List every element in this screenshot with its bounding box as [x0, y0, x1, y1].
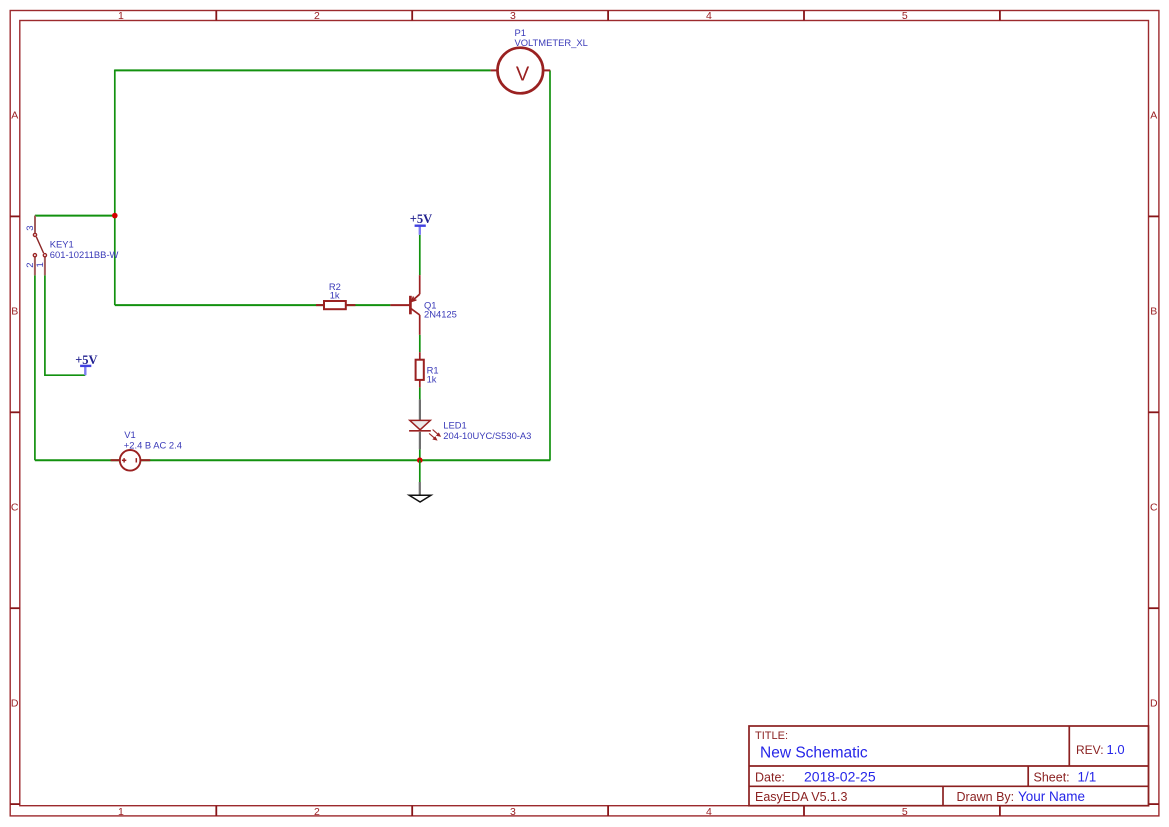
svg-text:2N4125: 2N4125 — [424, 309, 457, 320]
svg-text:5: 5 — [902, 806, 908, 818]
svg-text:1: 1 — [118, 10, 124, 22]
value 204-10UYC/S530-A3 of LED1 — [443, 430, 531, 441]
svg-text:REV:: REV: — [1076, 743, 1104, 757]
svg-text:1.0: 1.0 — [1107, 742, 1125, 757]
wire LED1 to bottom rail — [419, 449, 421, 460]
wire +5V to Q1 emitter — [419, 235, 421, 275]
svg-text:KEY1: KEY1 — [50, 239, 74, 250]
wire right vertical — [549, 70, 551, 460]
svg-text:A: A — [1150, 110, 1157, 122]
label R1 — [427, 365, 439, 376]
svg-text:2: 2 — [314, 10, 320, 22]
node junction J1 — [112, 213, 118, 219]
svg-text:Drawn By:: Drawn By: — [957, 790, 1015, 804]
svg-text:+2.4 B AC 2.4: +2.4 B AC 2.4 — [124, 439, 182, 450]
power +5V (left) — [75, 353, 97, 375]
svg-text:1: 1 — [35, 262, 46, 267]
svg-text:D: D — [11, 697, 19, 709]
voltmeter P1 — [491, 48, 551, 94]
svg-text:1/1: 1/1 — [1078, 769, 1097, 784]
value 2N4125 of Q1 — [424, 309, 457, 320]
wire base row — [115, 304, 391, 306]
svg-text:2: 2 — [314, 806, 320, 818]
value 1k of R2 — [330, 290, 340, 301]
svg-text:V1: V1 — [124, 429, 135, 440]
svg-text:4: 4 — [706, 806, 712, 818]
svg-text:Your Name: Your Name — [1018, 789, 1085, 804]
label R2 — [329, 281, 341, 292]
label LED1 — [443, 419, 466, 430]
svg-text:C: C — [1150, 502, 1158, 514]
svg-text:1: 1 — [118, 806, 124, 818]
svg-text:C: C — [11, 502, 19, 514]
node junction J2 — [417, 457, 423, 463]
svg-text:1k: 1k — [330, 290, 340, 301]
svg-text:5: 5 — [902, 10, 908, 22]
wire top rail — [115, 69, 491, 71]
svg-text:Sheet:: Sheet: — [1034, 770, 1070, 784]
wire switch pin2 down — [34, 275, 36, 460]
svg-text:3: 3 — [510, 806, 516, 818]
wire bottom rail — [35, 459, 550, 461]
svg-text:2018-02-25: 2018-02-25 — [804, 768, 876, 784]
svg-text:A: A — [11, 110, 18, 122]
pin number 1 — [35, 262, 46, 267]
svg-text:3: 3 — [25, 225, 36, 230]
svg-text:V: V — [516, 63, 530, 85]
wire left vertical — [114, 70, 116, 306]
svg-text:3: 3 — [510, 10, 516, 22]
source V1 — [111, 450, 151, 471]
label P1 — [515, 27, 526, 38]
svg-text:EasyEDA V5.1.3: EasyEDA V5.1.3 — [755, 790, 847, 804]
wire Q1 collector to R1 — [419, 335, 421, 352]
power +5V (top) — [410, 212, 432, 235]
value VOLTMETER_XL of P1 — [515, 37, 588, 48]
svg-text:4: 4 — [706, 10, 712, 22]
svg-text:D: D — [1150, 697, 1158, 709]
svg-text:+5V: +5V — [75, 353, 97, 367]
value 601-10211BB-W of KEY1 — [50, 249, 119, 260]
svg-text:601-10211BB-W: 601-10211BB-W — [50, 249, 119, 260]
pin number 3 — [25, 225, 36, 230]
svg-text:VOLTMETER_XL: VOLTMETER_XL — [515, 37, 588, 48]
label V1 — [124, 429, 135, 440]
svg-text:+5V: +5V — [410, 212, 432, 226]
svg-text:Date:: Date: — [755, 770, 785, 784]
svg-text:New Schematic: New Schematic — [760, 745, 868, 762]
svg-text:TITLE:: TITLE: — [755, 730, 788, 742]
wire switch pin1 to +5V — [45, 275, 85, 375]
value 1k of R1 — [427, 374, 437, 385]
wire to ground — [419, 460, 421, 482]
label KEY1 — [50, 239, 74, 250]
pin number 2 — [25, 263, 36, 268]
resistor R2 — [316, 301, 355, 309]
label Q1 — [424, 299, 437, 310]
wire R1 to LED1 — [419, 387, 421, 399]
resistor R1 — [416, 352, 424, 387]
wire switch branch — [35, 215, 115, 217]
value +2.4 B AC 2.4 of V1 — [124, 439, 182, 450]
ground — [409, 482, 431, 502]
svg-text:204-10UYC/S530-A3: 204-10UYC/S530-A3 — [443, 430, 531, 441]
svg-text:1k: 1k — [427, 374, 437, 385]
svg-text:LED1: LED1 — [443, 419, 466, 430]
switch KEY1 — [33, 216, 46, 276]
LED LED1 — [409, 399, 440, 449]
svg-text:B: B — [1150, 306, 1157, 318]
svg-text:B: B — [11, 306, 18, 318]
transistor Q1 — [390, 275, 419, 335]
